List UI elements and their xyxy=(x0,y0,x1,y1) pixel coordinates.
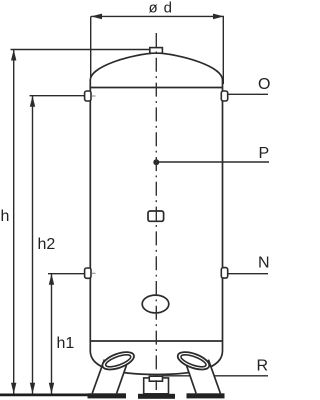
h2 dimension vertical line xyxy=(32,96,34,394)
leader line P xyxy=(156,161,269,163)
left leg xyxy=(88,349,137,399)
leader line O xyxy=(228,93,268,95)
handhole ellipse xyxy=(142,295,169,313)
top weld seam xyxy=(90,87,222,89)
leader line N xyxy=(228,273,268,275)
h2 dimension extension line xyxy=(30,95,86,97)
nozzle O left xyxy=(85,91,91,101)
centerline xyxy=(155,33,157,390)
svg-text:ø d: ø d xyxy=(149,0,173,17)
nozzle N right xyxy=(221,268,227,279)
vessel shell outline xyxy=(90,53,222,375)
top nozzle xyxy=(150,48,163,54)
h1 dimension vertical line xyxy=(51,274,53,394)
svg-text:N: N xyxy=(258,255,270,272)
arrow right of ød xyxy=(213,14,224,20)
h dimension vertical line xyxy=(13,50,15,394)
svg-text:P: P xyxy=(259,145,270,162)
arrow left of ød xyxy=(91,14,102,20)
nozzle N left xyxy=(85,268,91,278)
svg-text:h2: h2 xyxy=(38,236,56,253)
extension line right of ød xyxy=(222,16,224,84)
h dimension extension line (top) xyxy=(11,49,151,51)
extension line left of ød xyxy=(90,16,92,84)
nozzle O right xyxy=(221,91,227,101)
bottom weld seam xyxy=(90,340,222,342)
drain fitting R xyxy=(149,376,162,381)
dimension ød line xyxy=(91,15,224,17)
svg-text:R: R xyxy=(257,358,269,375)
leader line R xyxy=(162,375,268,377)
node P dot xyxy=(153,159,159,165)
mid fitting on centerline xyxy=(148,211,164,221)
right leg xyxy=(176,349,225,399)
center leg xyxy=(138,378,175,399)
svg-text:h: h xyxy=(1,208,10,225)
svg-text:h1: h1 xyxy=(57,335,75,352)
ground baseline xyxy=(0,393,100,396)
svg-text:O: O xyxy=(258,76,270,93)
h1 dimension extension line xyxy=(48,273,85,275)
